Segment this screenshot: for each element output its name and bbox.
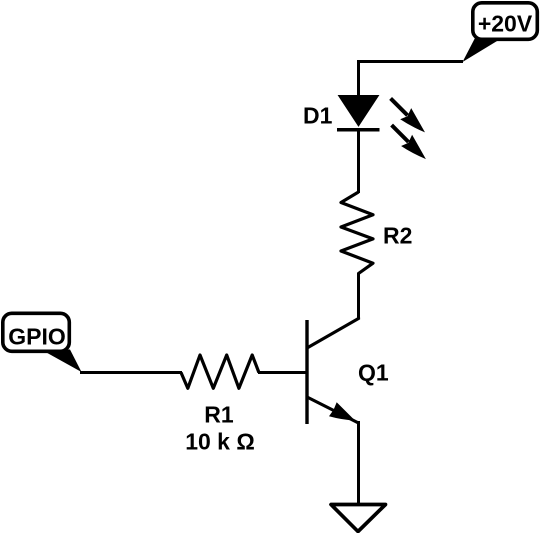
svg-text:D1: D1 (303, 103, 333, 129)
wire +20V to LED anode (359, 62, 464, 98)
svg-text:10 k Ω: 10 k Ω (185, 429, 255, 455)
svg-text:+20V: +20V (478, 11, 533, 37)
wire R2 to Q1 collector (357, 273, 360, 320)
svg-text:R1: R1 (204, 402, 234, 428)
ground (331, 505, 386, 532)
resistor R1 (181, 355, 259, 388)
LED D1 (337, 96, 380, 130)
LED light emission arrow 1 (391, 98, 425, 132)
LED light emission arrow 2 (392, 125, 426, 159)
resistor R2 (341, 192, 373, 274)
transistor Q1 (307, 318, 359, 425)
svg-text:GPIO: GPIO (8, 324, 66, 350)
svg-text:R2: R2 (383, 223, 412, 249)
wire Q1 emitter to ground (357, 421, 360, 504)
wire R1 to Q1 base (258, 371, 307, 374)
wire GPIO to R1 (80, 371, 182, 374)
power terminal +20V callout box (463, 3, 538, 62)
GPIO input callout box (3, 313, 82, 372)
svg-text:Q1: Q1 (358, 360, 389, 386)
wire LED cathode to R2 (357, 130, 360, 194)
